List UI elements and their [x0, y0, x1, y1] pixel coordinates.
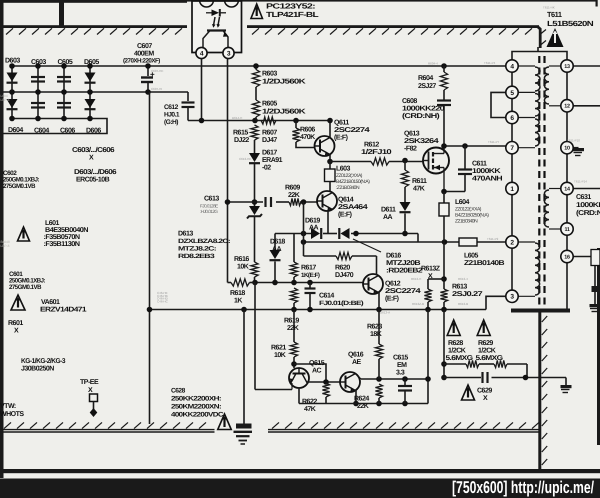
svg-text:Q615: Q615 — [309, 360, 325, 367]
top barrier corner turning down — [538, 27, 541, 48]
svg-text:C629: C629 — [477, 388, 492, 395]
svg-text:2SJ27: 2SJ27 — [418, 83, 436, 90]
svg-text:(E:F): (E:F) — [385, 295, 399, 303]
wire: bus y=120.5 — [188, 120, 330, 122]
svg-text:AA: AA — [272, 246, 282, 253]
wire: rail y=282.5 to Q612 base — [255, 282, 363, 284]
svg-text:D604: D604 — [8, 127, 23, 134]
diode D606 — [85, 99, 96, 108]
diode D611 — [400, 202, 411, 211]
wire: Q615 collector line to Q616 — [307, 381, 340, 383]
wire: drain line y=146 — [444, 145, 506, 147]
svg-text:C615: C615 — [393, 355, 408, 362]
svg-text::RD20EB2: :RD20EB2 — [386, 268, 423, 275]
resistor R612 — [371, 158, 389, 165]
svg-text:Q613: Q613 — [404, 131, 420, 138]
connector box right edge — [591, 250, 600, 266]
T611 pin 12 — [561, 100, 573, 112]
opto pin 3 — [223, 47, 234, 58]
svg-text:R622: R622 — [302, 399, 317, 406]
T611 pin 16 — [561, 250, 573, 262]
zener diode D613 — [249, 206, 260, 215]
svg-text:R615: R615 — [233, 130, 248, 137]
opto pin 4 — [196, 47, 207, 58]
diode D619 — [311, 228, 320, 239]
svg-text:DZXLBZA8.2C:: DZXLBZA8.2C: — [178, 238, 231, 245]
svg-text:250KM2200XN:: 250KM2200XN: — [171, 404, 221, 411]
diode D618 column — [274, 234, 276, 251]
diode D616 (zener, back to back) — [341, 228, 350, 239]
wire: gate line / resistor R611 column — [402, 158, 408, 164]
svg-text:3.3: 3.3 — [396, 370, 405, 377]
wire: Q615 emitter to rail — [291, 383, 293, 390]
svg-text:R609: R609 — [285, 185, 300, 192]
transformer core dashed lines — [538, 56, 540, 308]
resistor R622 — [322, 383, 329, 397]
svg-text:D614-H: D614-H — [232, 116, 242, 120]
wire: Q616 collector line y=379 — [358, 376, 361, 379]
svg-text:R613-B: R613-B — [458, 302, 468, 306]
wire: column x=303.5 — [303, 202, 305, 256]
svg-text:R601: R601 — [8, 320, 23, 327]
svg-text:R618: R618 — [230, 290, 245, 297]
svg-text:ERA91: ERA91 — [262, 157, 283, 164]
svg-text:WHOTS: WHOTS — [0, 411, 24, 418]
svg-text:(270XH:220XF): (270XH:220XF) — [123, 58, 160, 65]
capacitor C629 — [481, 372, 483, 383]
svg-text:R613Z-B: R613Z-B — [412, 302, 424, 306]
svg-text:FJ0.0128E: FJ0.0128E — [200, 204, 218, 209]
svg-text:(G:H): (G:H) — [164, 119, 178, 126]
junction dots rail y=403.5 — [376, 401, 382, 407]
bottom isolation barrier (hatched, left part) — [0, 429, 215, 431]
svg-text:R611: R611 — [412, 178, 427, 185]
svg-text:VTW:: VTW: — [0, 403, 16, 410]
svg-text:C604: C604 — [34, 128, 49, 135]
svg-text:T611-P10: T611-P10 — [567, 139, 580, 143]
wire: line y=202 (C613/R609 to Q614 base) — [228, 201, 264, 203]
svg-text:D603/.../D606: D603/.../D606 — [74, 168, 117, 176]
svg-text:TLP421F-BL: TLP421F-BL — [266, 10, 319, 19]
svg-text:1000KH: 1000KH — [576, 202, 600, 209]
ground pin16 — [590, 304, 600, 307]
svg-text:T611-P7: T611-P7 — [488, 140, 500, 144]
capacitor C611 — [464, 146, 466, 169]
opto light arrows — [214, 17, 216, 26]
top-right border stub — [596, 0, 598, 7]
svg-text:DJ470: DJ470 — [335, 272, 354, 279]
svg-text:T611-P2: T611-P2 — [487, 237, 499, 241]
resistor R613 — [440, 289, 447, 302]
svg-text:C614: C614 — [319, 293, 334, 300]
diode D604 — [7, 99, 18, 108]
capacitor C603 — [31, 76, 45, 78]
svg-text:L604: L604 — [455, 199, 470, 206]
svg-text:1000KK220: 1000KK220 — [402, 106, 445, 113]
optocoupler PC123Y52 / TLP421F-BL box — [192, 1, 242, 53]
svg-text:18K: 18K — [370, 331, 382, 338]
wire: Q611 emitter down — [329, 155, 331, 162]
svg-text:C607-HI: C607-HI — [151, 87, 162, 91]
svg-text:R628: R628 — [448, 340, 463, 347]
wire: line y=233.5 — [275, 233, 311, 235]
svg-text:L51B5620N: L51B5620N — [547, 19, 593, 28]
wire: bottom rail y=403.5 — [299, 403, 428, 405]
wire: line y=242 to L605 and pin2 — [304, 241, 460, 243]
capacitor C612 — [187, 92, 189, 101]
junction dots bus y=120.5 — [199, 118, 205, 124]
svg-text:1/2DJ560K: 1/2DJ560K — [262, 108, 306, 116]
svg-text:C603/.../C606: C603/.../C606 — [72, 146, 115, 154]
svg-text:C628: C628 — [171, 388, 186, 395]
svg-text::Z21B0340N: :Z21B0340N — [336, 185, 360, 191]
capacitor C604 — [31, 102, 45, 104]
svg-text:Q611: Q611 — [334, 120, 349, 127]
svg-text:Z21B0140B: Z21B0140B — [464, 260, 505, 267]
resistor R624 — [375, 384, 382, 398]
svg-text:R620: R620 — [335, 265, 350, 272]
resistor R607 (horizontal on bus) — [261, 117, 276, 124]
svg-text:C613-HE: C613-HE — [239, 157, 251, 161]
opto phototransistor — [207, 29, 226, 31]
capacitor C608 — [437, 99, 451, 101]
right edge black bar (secondary rail) — [597, 248, 600, 445]
svg-text:LBP-8: LBP-8 — [1, 244, 10, 248]
svg-text:275GM0.1VB: 275GM0.1VB — [9, 284, 42, 291]
wire: rail y=309.5 — [150, 309, 487, 311]
ground — [561, 385, 572, 388]
svg-text:C613: C613 — [204, 196, 219, 203]
svg-text:2SJ0.27: 2SJ0.27 — [452, 291, 483, 298]
transformer left pin bus — [511, 60, 513, 296]
T611 pin 10 — [561, 142, 573, 154]
svg-text:12: 12 — [564, 104, 570, 110]
page left border bar — [0, 0, 4, 478]
svg-text:R606: R606 — [300, 127, 315, 134]
svg-text:D605: D605 — [84, 59, 99, 66]
svg-text:AA: AA — [383, 214, 393, 221]
svg-text:RD8.2EB3: RD8.2EB3 — [178, 253, 215, 260]
svg-text:R604-4: R604-4 — [428, 62, 438, 66]
T611 pin 11 — [561, 223, 573, 235]
svg-text:470ANH: 470ANH — [472, 176, 503, 183]
svg-text:LBP-6: LBP-6 — [1, 98, 10, 102]
svg-text:C603: C603 — [31, 59, 46, 66]
junction dots rail y=282.5 — [252, 280, 258, 286]
T611 pin 1 — [506, 182, 518, 194]
transformer T611 top bracket — [512, 52, 567, 61]
transistor Q612 — [363, 274, 383, 294]
svg-text:R613-4: R613-4 — [458, 277, 468, 281]
wire and ground right of C629 — [565, 378, 567, 386]
svg-text:5.6MXG: 5.6MXG — [476, 355, 504, 362]
T611 pin 14 — [561, 182, 573, 194]
svg-text:T611: T611 — [547, 10, 562, 19]
D616 label leader line — [353, 239, 381, 252]
svg-text:R624: R624 — [354, 396, 369, 403]
svg-text::HJ0.012G: :HJ0.012G — [200, 209, 218, 214]
svg-text:L605: L605 — [464, 253, 479, 260]
wire: line y=377.5 with C629 — [444, 377, 481, 379]
svg-text:R619: R619 — [284, 318, 299, 325]
svg-text:(CRD:N: (CRD:N — [576, 209, 600, 217]
svg-text:10: 10 — [564, 146, 570, 152]
resistor R617 column — [293, 234, 295, 263]
black footer band — [0, 479, 600, 498]
svg-text:2SA464: 2SA464 — [338, 204, 368, 211]
svg-text:R603: R603 — [262, 71, 277, 78]
svg-text:275GM0.1VB: 275GM0.1VB — [3, 183, 36, 190]
wire: Q611 collector up to bus — [329, 121, 331, 138]
svg-text:11: 11 — [564, 227, 569, 233]
svg-text:TP-EE: TP-EE — [80, 379, 99, 386]
resistor R618 (horizontal) — [228, 282, 232, 284]
svg-text:MTZJ20B: MTZJ20B — [386, 260, 421, 267]
pad on pin16 wire — [592, 286, 599, 292]
warning symbol R629 — [477, 320, 490, 336]
svg-text:2SC2274: 2SC2274 — [334, 127, 370, 134]
page top border line — [0, 0, 187, 3]
svg-text:AE: AE — [352, 359, 362, 366]
primary windings — [518, 65, 535, 67]
svg-text:C611: C611 — [472, 161, 487, 168]
wire: opto pin4 column — [201, 59, 203, 121]
resistor R613Z — [427, 279, 429, 289]
junction dots C607 — [145, 63, 151, 69]
svg-text:D603: D603 — [5, 58, 20, 65]
warning symbol opto — [251, 4, 263, 19]
resistor R628 — [466, 360, 479, 367]
svg-text:1000KK: 1000KK — [472, 168, 501, 175]
wire: col 255 down and to Q615 — [254, 283, 256, 390]
svg-text:[750x600] http://upic.me/: [750x600] http://upic.me/ — [452, 478, 594, 497]
svg-text:D613: D613 — [178, 231, 193, 238]
transformer right pin bus — [566, 60, 568, 257]
svg-text:B4E35B0040N: B4E35B0040N — [45, 227, 88, 234]
svg-text:1/2DJ560K: 1/2DJ560K — [262, 78, 306, 86]
svg-text:R616: R616 — [234, 256, 249, 263]
diode D618 — [270, 250, 281, 259]
svg-text:(E:F): (E:F) — [338, 211, 352, 219]
svg-text:R629: R629 — [478, 340, 493, 347]
svg-text:400EM: 400EM — [134, 51, 154, 58]
svg-text:C607-HE: C607-HE — [151, 69, 163, 73]
wire: MOSFET source node y=191.5 — [444, 191, 465, 193]
svg-text:KG-1/KG-2/KG-3: KG-1/KG-2/KG-3 — [21, 357, 66, 365]
wire: pin 12 to edge — [573, 105, 600, 107]
svg-text:2SC2274: 2SC2274 — [385, 288, 421, 295]
svg-text::F35B0570N: :F35B0570N — [44, 234, 80, 241]
svg-text:DJ22: DJ22 — [234, 137, 249, 144]
wire: grid column x=64 — [63, 66, 65, 119]
svg-text:L603: L603 — [336, 166, 351, 173]
transistor Q611 — [315, 136, 335, 156]
diode D617 — [249, 153, 260, 162]
svg-text:J30B0250N: J30B0250N — [21, 366, 54, 373]
capacitor C615 — [404, 379, 406, 385]
wire: pin 13 to edge — [573, 65, 600, 67]
svg-text:HJ0.1: HJ0.1 — [164, 112, 180, 119]
svg-text:14: 14 — [564, 186, 570, 192]
svg-text:R617: R617 — [301, 265, 316, 272]
svg-text:MTZJ8.2C:: MTZJ8.2C: — [178, 246, 217, 253]
svg-text:47K: 47K — [304, 406, 316, 413]
wire: R621 column — [293, 310, 295, 343]
transistor Q616 — [340, 372, 360, 392]
capacitor C606 — [57, 102, 71, 104]
diode D603 — [7, 73, 18, 82]
wire: Q612 emitter — [378, 293, 380, 310]
svg-text:T611-HK: T611-HK — [543, 6, 555, 10]
wire: x=418 drop to line 242 — [417, 234, 419, 243]
svg-text:47K: 47K — [413, 186, 425, 193]
resistor R604 — [441, 63, 447, 69]
wire: grid column x=38 — [37, 66, 39, 119]
T611 pin 7 — [506, 142, 518, 154]
wire: R613Z top stub — [428, 278, 444, 280]
wire: grid top bus y=66 to transformer pin 4 — [12, 65, 506, 67]
svg-text:1K: 1K — [234, 298, 242, 305]
svg-text:-F82: -F82 — [404, 146, 417, 153]
wire: grid column x=90 — [89, 66, 91, 119]
svg-text:-02: -02 — [262, 165, 271, 172]
svg-text:16: 16 — [564, 254, 570, 260]
wire: opto pin3 column — [227, 59, 229, 283]
wire: pin 10 to ground — [573, 147, 579, 149]
resistor R616 — [251, 262, 258, 277]
T611 pin 3 — [506, 290, 518, 302]
wire: line y=364 with R628 R629 — [444, 363, 466, 365]
svg-text:ERC05-10B: ERC05-10B — [76, 177, 110, 184]
capacitor C613 — [264, 197, 266, 207]
svg-text:DJ47: DJ47 — [262, 137, 277, 144]
diode D605 — [85, 73, 96, 82]
wire: grid middle bus y=92 — [0, 91, 188, 93]
inductor L603 box — [329, 162, 331, 170]
ground pin10 — [573, 148, 584, 151]
svg-text:R623: R623 — [367, 324, 382, 331]
svg-text:Q612: Q612 — [385, 281, 401, 288]
resistor R615 — [251, 125, 258, 140]
wire: Q616 emitter — [355, 390, 357, 404]
svg-text:R613-H: R613-H — [411, 277, 421, 281]
svg-text:22K: 22K — [357, 403, 369, 410]
wire: grid bottom bus — [0, 119, 107, 134]
warning symbol VA601 — [11, 295, 25, 310]
resistor R605 — [252, 100, 259, 117]
transistor Q615 — [289, 368, 309, 388]
svg-text:D611: D611 — [381, 207, 396, 214]
svg-text:FJ0.01(D:BE): FJ0.01(D:BE) — [319, 300, 364, 307]
warning symbol T611 — [547, 28, 564, 47]
T611 pin 2 — [506, 236, 518, 248]
T611 pin 6 — [506, 111, 518, 123]
warning symbol C629 — [462, 385, 475, 400]
resistor R623 — [378, 310, 380, 345]
wire: Q612 collector — [376, 256, 378, 275]
svg-text:Z21B0340N: Z21B0340N — [455, 219, 478, 225]
warning symbol C628 — [218, 414, 232, 430]
svg-text:EM: EM — [397, 362, 407, 369]
wire: column x=428 — [427, 310, 429, 404]
svg-text:T611-P14: T611-P14 — [574, 180, 587, 184]
svg-text:470K: 470K — [300, 134, 315, 141]
svg-text:400KK2200VDC: 400KK2200VDC — [171, 412, 224, 419]
svg-text:22K: 22K — [287, 325, 299, 332]
svg-text:L601: L601 — [45, 220, 60, 227]
svg-text:10K: 10K — [237, 264, 249, 271]
svg-text:10K: 10K — [274, 352, 286, 359]
bracket pins 5-6 — [491, 92, 506, 117]
wire: dot364 to R622 top — [294, 364, 326, 383]
right isolation barrier vertical (hatched) — [538, 310, 541, 470]
capacitor C628 stack — [236, 424, 252, 429]
opto LED diode — [212, 10, 220, 17]
svg-text:R613: R613 — [452, 284, 467, 291]
svg-text:C607: C607 — [137, 43, 152, 50]
wire: pin16 down to thick bar — [566, 257, 568, 310]
wire: R612 gate line y=161.5 — [330, 161, 371, 163]
capacitor C607 (electrolytic) — [147, 66, 149, 76]
svg-text:D619: D619 — [305, 218, 320, 225]
wire / diode D617 column — [254, 140, 256, 153]
svg-text::F35B1130N: :F35B1130N — [44, 241, 80, 248]
svg-text:R607: R607 — [262, 130, 277, 137]
thick primary return bar — [511, 309, 570, 313]
svg-text:R604: R604 — [418, 75, 433, 82]
svg-text:D613-A: D613-A — [380, 311, 390, 315]
svg-text:1/2CK: 1/2CK — [448, 347, 466, 355]
wire: grid column x=12 — [11, 66, 13, 119]
svg-text:5.6MXG: 5.6MXG — [446, 355, 474, 362]
resistor R620 line — [304, 255, 337, 257]
svg-text:C605: C605 — [58, 59, 73, 66]
resistor R606 column — [295, 121, 297, 129]
MOSFET Q613 — [423, 148, 449, 174]
resistor R619 — [290, 288, 297, 303]
T611 pin 5 — [506, 86, 518, 98]
svg-text:Q616: Q616 — [348, 352, 364, 359]
transistor Q614 — [317, 191, 337, 211]
svg-text:ERZV14D471: ERZV14D471 — [40, 307, 87, 314]
svg-text:C46-HC: C46-HC — [157, 299, 169, 303]
svg-text:(CRD:NH): (CRD:NH) — [402, 112, 439, 120]
svg-text:R621: R621 — [271, 345, 286, 352]
svg-text:C631: C631 — [576, 194, 591, 201]
svg-text:C606: C606 — [60, 128, 75, 135]
svg-text:T611-P4: T611-P4 — [484, 61, 496, 65]
wire: pin 14 to edge — [573, 188, 600, 190]
bottom isolation barrier (hatched, right part) — [268, 429, 541, 431]
svg-text:D616: D616 — [386, 253, 401, 260]
junction dots rail y=309.5 — [147, 307, 153, 313]
capacitor C605 — [57, 76, 71, 78]
inductor L604 box — [443, 192, 445, 204]
T611 pin 13 — [561, 60, 573, 72]
jumper L605 box — [459, 238, 477, 246]
top isolation barrier (hatched) — [0, 25, 187, 28]
svg-text:R605: R605 — [262, 101, 277, 108]
svg-text:R612: R612 — [364, 142, 379, 149]
svg-text:1K(E:F): 1K(E:F) — [301, 272, 320, 279]
secondary windings — [549, 65, 561, 67]
warning symbol L601 — [18, 227, 30, 241]
svg-text:22K: 22K — [288, 192, 300, 199]
wire: Q614 collector down — [327, 211, 329, 234]
resistor R609 — [289, 198, 301, 205]
black bar on top border — [59, 0, 64, 27]
svg-text:VA601: VA601 — [41, 299, 60, 306]
